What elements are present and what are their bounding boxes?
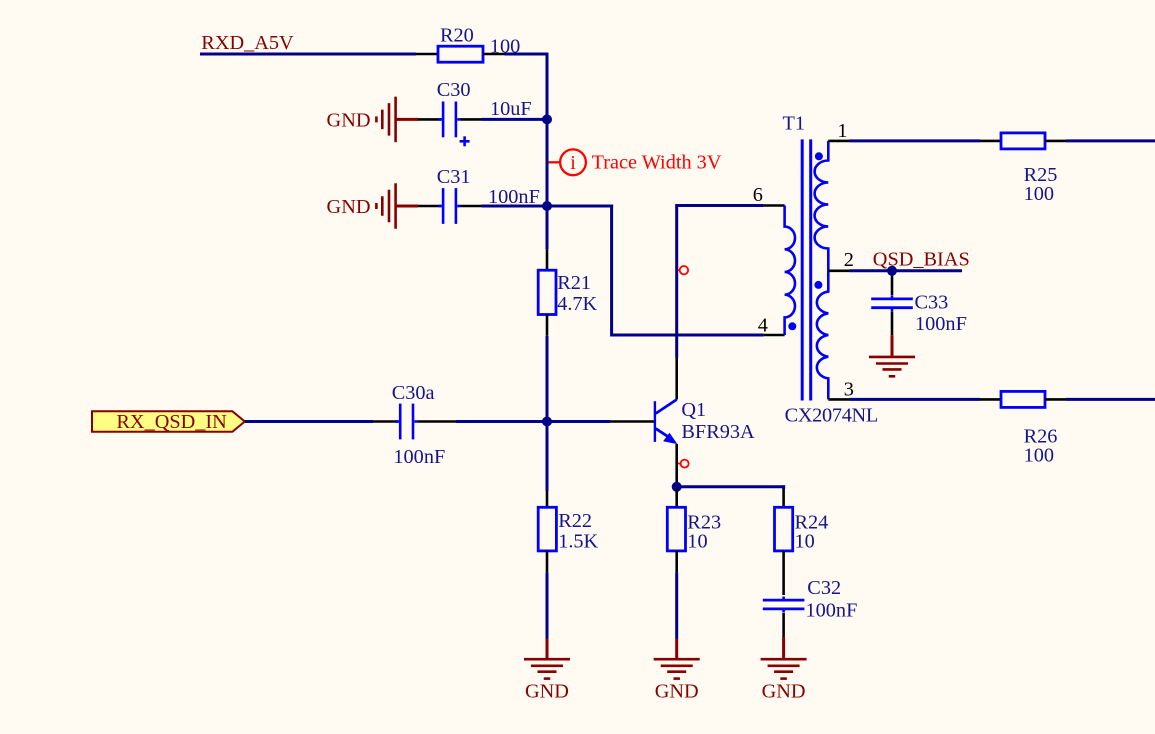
svg-text:10: 10 xyxy=(795,530,815,552)
svg-text:C30a: C30a xyxy=(392,382,435,404)
svg-text:GND: GND xyxy=(655,680,699,702)
svg-text:T1: T1 xyxy=(783,113,806,135)
svg-text:GND: GND xyxy=(525,680,569,702)
svg-text:100: 100 xyxy=(490,35,520,57)
svg-text:RXD_A5V: RXD_A5V xyxy=(201,32,294,54)
svg-text:R20: R20 xyxy=(440,25,474,47)
svg-text:Q1: Q1 xyxy=(681,399,706,421)
svg-text:100: 100 xyxy=(1024,445,1054,467)
svg-text:100nF: 100nF xyxy=(488,186,540,208)
svg-text:i: i xyxy=(570,152,576,174)
svg-text:GND: GND xyxy=(327,196,371,218)
svg-text:100nF: 100nF xyxy=(806,600,858,622)
svg-text:C33: C33 xyxy=(915,292,949,314)
svg-text:4: 4 xyxy=(758,314,768,336)
svg-text:100nF: 100nF xyxy=(393,446,445,468)
svg-text:GND: GND xyxy=(762,680,806,702)
svg-text:Trace Width 3V: Trace Width 3V xyxy=(592,151,722,173)
svg-text:10: 10 xyxy=(687,530,707,552)
svg-text:R22: R22 xyxy=(558,510,592,532)
svg-text:C31: C31 xyxy=(437,166,471,188)
svg-text:1: 1 xyxy=(837,120,847,142)
svg-text:4.7K: 4.7K xyxy=(557,293,597,315)
svg-text:QSD_BIAS: QSD_BIAS xyxy=(873,248,970,270)
svg-text:3: 3 xyxy=(844,379,854,401)
svg-text:2: 2 xyxy=(844,249,854,271)
svg-text:R21: R21 xyxy=(557,272,591,294)
svg-text:1.5K: 1.5K xyxy=(558,530,598,552)
svg-text:GND: GND xyxy=(327,109,371,131)
svg-text:C32: C32 xyxy=(807,577,841,599)
svg-text:BFR93A: BFR93A xyxy=(681,421,755,443)
svg-text:C30: C30 xyxy=(437,79,471,101)
svg-text:RX_QSD_IN: RX_QSD_IN xyxy=(116,411,227,433)
svg-text:100: 100 xyxy=(1024,183,1054,205)
svg-text:10uF: 10uF xyxy=(490,98,532,120)
svg-text:100nF: 100nF xyxy=(915,313,967,335)
svg-text:CX2074NL: CX2074NL xyxy=(785,405,878,427)
svg-text:6: 6 xyxy=(753,184,763,206)
